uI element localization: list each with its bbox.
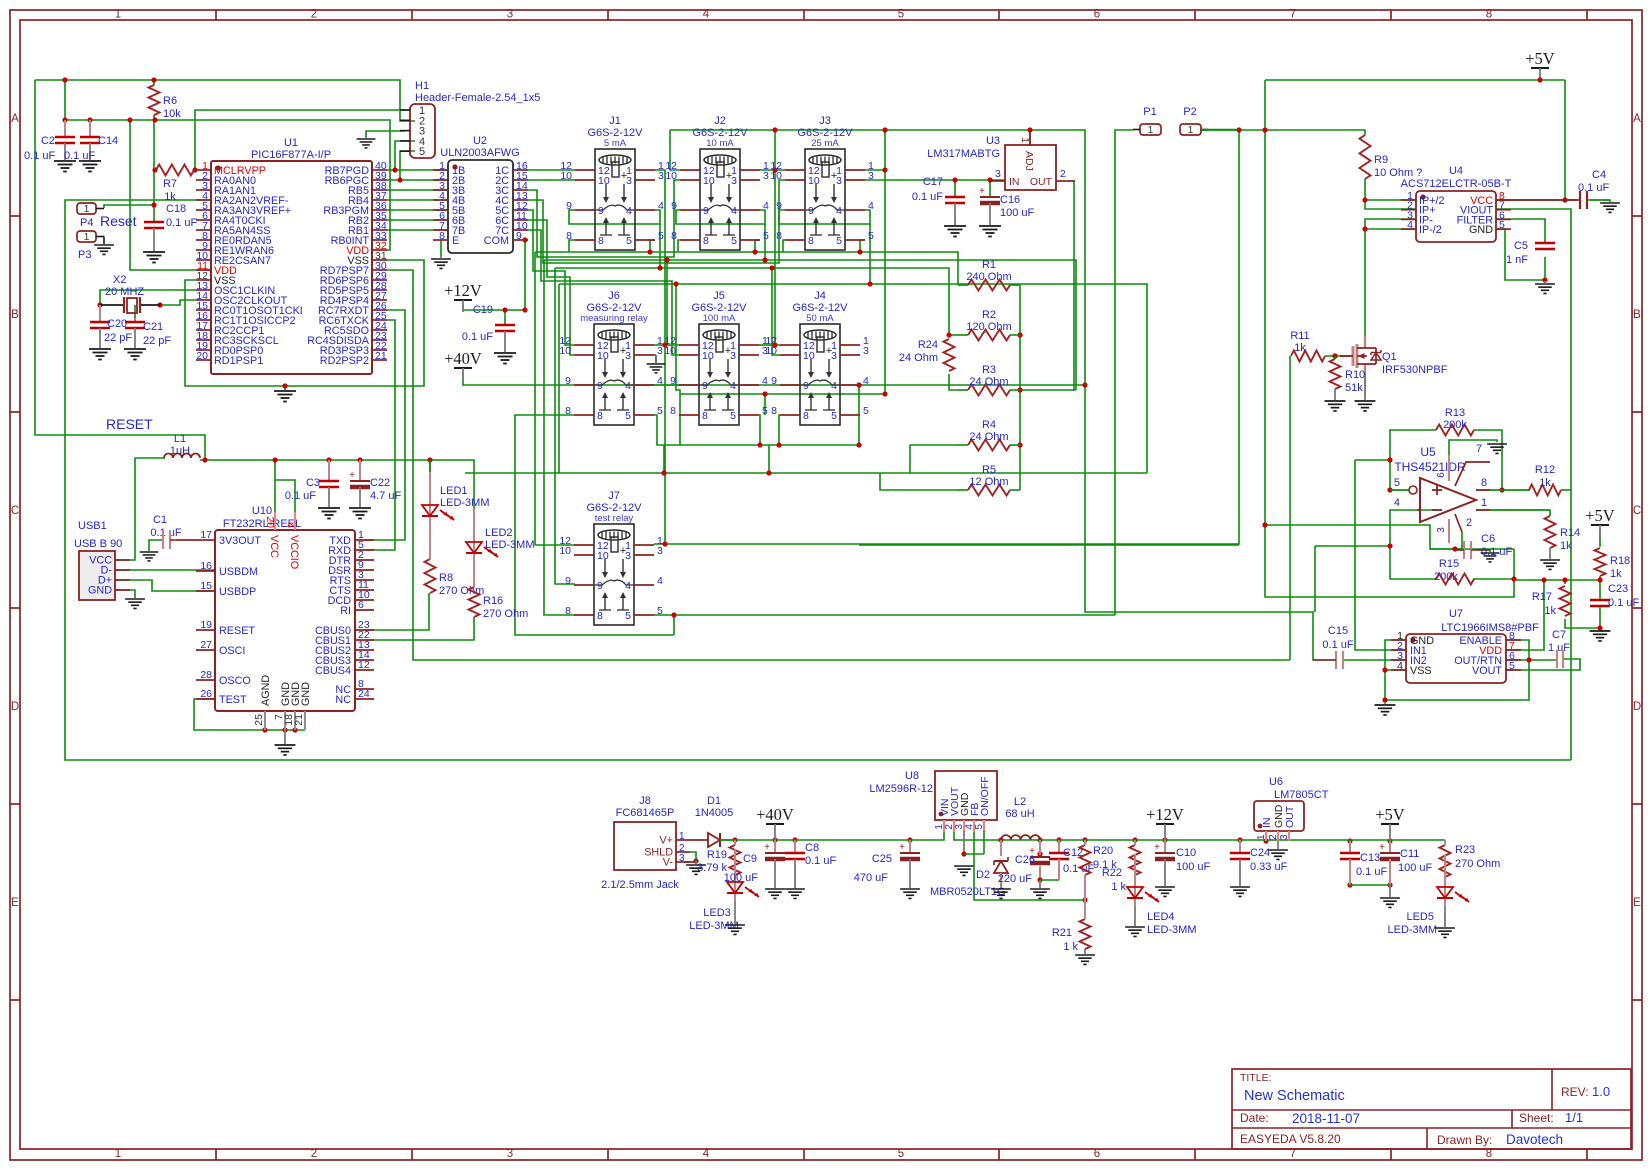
svg-text:4: 4 (1394, 497, 1400, 509)
svg-text:ACS712ELCTR-05B-T: ACS712ELCTR-05B-T (1401, 178, 1512, 190)
wire U3 ADJ riser (1029, 130, 1031, 145)
svg-text:J2: J2 (714, 115, 726, 127)
wire bus left verticals (535, 252, 575, 545)
capacitor C25 (909, 840, 911, 853)
svg-text:C: C (1633, 505, 1641, 517)
wire J6 contact to J7 column (515, 415, 674, 635)
wire U7 VOUT to C7 right (1506, 659, 1580, 670)
svg-text:Reset: Reset (100, 213, 137, 229)
svg-text:GND: GND (88, 585, 112, 597)
capacitor C9 (774, 840, 776, 853)
svg-text:D1: D1 (707, 795, 721, 807)
ground U8 GND pin (963, 831, 965, 853)
resistor R10 (1330, 359, 1341, 389)
wire U1 pin26 to U10 TXD (365, 310, 405, 540)
svg-text:10: 10 (664, 345, 676, 357)
svg-text:10: 10 (559, 545, 571, 557)
wire U1 pin36 to U2 5B (387, 209, 448, 211)
capacitor C19 (495, 324, 515, 326)
svg-text:5: 5 (626, 235, 632, 247)
svg-text:5: 5 (731, 235, 737, 247)
wire X2 crystal right (160, 300, 196, 305)
svg-text:GND: GND (1469, 224, 1493, 236)
svg-text:E: E (1633, 897, 1641, 909)
wire C26 C12 bottom (1037, 877, 1042, 882)
wire U2 output 6C to J3 coil (528, 220, 574, 355)
svg-text:5: 5 (974, 824, 985, 830)
wire H1 pin3 ground stub (366, 131, 405, 138)
svg-text:3: 3 (625, 350, 631, 362)
wire J6 contact link (654, 415, 680, 445)
wire U5 pin5 feed (1355, 459, 1390, 461)
wire C16 stem (989, 180, 991, 197)
svg-text:8: 8 (771, 405, 777, 417)
svg-text:USBDP: USBDP (219, 586, 256, 598)
title block (1232, 1069, 1631, 1149)
wire R2 left link (949, 334, 958, 336)
svg-text:4: 4 (831, 380, 837, 392)
LED LED4 (1134, 854, 1136, 906)
wire bus line D (559, 284, 1147, 473)
svg-text:8: 8 (1486, 9, 1492, 21)
svg-text:USB B 90: USB B 90 (74, 538, 122, 550)
svg-text:8: 8 (703, 235, 709, 247)
ground H1 pin3 (357, 139, 376, 148)
svg-text:C22: C22 (370, 477, 390, 489)
svg-text:+: + (1379, 842, 1385, 853)
svg-text:68 uH: 68 uH (1005, 808, 1034, 820)
svg-text:4: 4 (836, 205, 842, 217)
svg-text:V-: V- (663, 857, 674, 869)
svg-text:R18: R18 (1610, 555, 1630, 567)
svg-text:+5V: +5V (1525, 49, 1555, 68)
svg-text:P3: P3 (78, 249, 91, 261)
svg-text:C15: C15 (1328, 625, 1348, 637)
wire +12V to U2 COM (463, 240, 528, 310)
resistor R9 (1360, 135, 1371, 179)
svg-text:VSS: VSS (1410, 665, 1432, 677)
svg-text:E: E (11, 897, 19, 909)
capacitor C11 (1389, 841, 1391, 853)
svg-text:R12: R12 (1535, 464, 1555, 476)
wire U3 OUT loop (1074, 181, 1075, 390)
wire C6 gnd side (1477, 550, 1490, 552)
wire U4 GND loop (1496, 229, 1545, 280)
resistor R15 (1436, 574, 1474, 585)
wire R11 drop (1289, 356, 1291, 660)
wire y580 tie line (1514, 579, 1600, 581)
ground LED3 (725, 925, 745, 934)
svg-text:2: 2 (1268, 834, 1279, 840)
svg-text:5: 5 (898, 1148, 904, 1160)
resistor R8 (425, 559, 436, 593)
svg-text:C24: C24 (1250, 847, 1270, 859)
svg-text:10: 10 (808, 175, 820, 187)
svg-text:1 nF: 1 nF (1506, 254, 1528, 266)
svg-text:16: 16 (200, 560, 212, 572)
capacitor C22 (359, 460, 361, 481)
relay J4 (765, 290, 869, 425)
resistor R16 (469, 587, 480, 617)
relay J7 (559, 490, 663, 625)
svg-text:0.1 uF: 0.1 uF (64, 150, 95, 162)
svg-text:3: 3 (658, 170, 664, 182)
svg-text:R17: R17 (1532, 591, 1552, 603)
svg-text:J7: J7 (608, 490, 620, 502)
resistor R18 (1595, 548, 1606, 576)
svg-text:B: B (1633, 309, 1641, 321)
svg-text:27: 27 (200, 639, 212, 651)
svg-text:5: 5 (1394, 477, 1400, 489)
svg-text:4: 4 (657, 575, 663, 587)
svg-text:9: 9 (808, 205, 814, 217)
svg-text:0.1 uF: 0.1 uF (24, 150, 55, 162)
svg-text:Header-Female-2.54_1x5: Header-Female-2.54_1x5 (415, 92, 540, 104)
relay J5 (664, 290, 768, 425)
svg-text:C3: C3 (306, 477, 320, 489)
svg-text:FC681465P: FC681465P (616, 807, 675, 819)
svg-text:270 Ohm: 270 Ohm (483, 608, 528, 620)
wire U2 output 4C to J2 coil (528, 180, 785, 263)
ground J8 (686, 865, 706, 874)
wire R17 top (1564, 580, 1566, 584)
relay J1 (560, 115, 664, 250)
svg-text:LED-3MM: LED-3MM (485, 539, 535, 551)
svg-text:12: 12 (358, 659, 370, 671)
svg-text:8: 8 (598, 235, 604, 247)
wire LED1 top (429, 460, 431, 478)
wire USB D+ to USBDP (115, 580, 215, 591)
svg-text:C7: C7 (1552, 629, 1566, 641)
svg-text:LED2: LED2 (485, 527, 513, 539)
svg-text:C14: C14 (98, 135, 118, 147)
relay J6 (559, 290, 663, 425)
svg-text:L2: L2 (1014, 796, 1026, 808)
svg-text:+12V: +12V (1146, 805, 1184, 824)
svg-text:1 uF: 1 uF (1548, 642, 1570, 654)
svg-text:+40V: +40V (756, 805, 794, 824)
wire bus line C (555, 268, 949, 336)
svg-text:0.33 uF: 0.33 uF (1250, 861, 1288, 873)
svg-text:LM2596R-12: LM2596R-12 (869, 783, 933, 795)
svg-text:21: 21 (293, 714, 305, 726)
svg-text:+: + (979, 186, 985, 197)
svg-text:10 mA: 10 mA (706, 138, 734, 149)
svg-text:TITLE:: TITLE: (1240, 1072, 1272, 1084)
svg-text:4: 4 (731, 205, 737, 217)
svg-text:+5V: +5V (1585, 506, 1615, 525)
wire J3 contact loop (783, 240, 785, 252)
svg-text:9: 9 (771, 375, 777, 387)
wire C1 right (176, 539, 196, 541)
wire U7 VSS stub (1385, 669, 1406, 671)
wire VCC sub rail (65, 80, 390, 250)
svg-text:+40V: +40V (444, 349, 482, 368)
svg-text:LED3: LED3 (703, 907, 731, 919)
svg-text:51k: 51k (1345, 382, 1363, 394)
svg-text:V+: V+ (659, 835, 673, 847)
svg-text:19: 19 (200, 619, 212, 631)
wire R18 column (1599, 530, 1601, 547)
svg-text:0.1 uF: 0.1 uF (1578, 182, 1609, 194)
svg-text:20 MHZ: 20 MHZ (105, 286, 144, 298)
svg-text:10: 10 (765, 345, 777, 357)
wire U5 gnd stub (1449, 440, 1497, 455)
svg-text:1 k: 1 k (1111, 881, 1126, 893)
svg-text:L1: L1 (174, 433, 186, 445)
wire VOUT switch node (954, 831, 1001, 840)
svg-text:0.1 uF: 0.1 uF (1608, 597, 1639, 609)
svg-text:+12V: +12V (444, 281, 482, 300)
svg-text:USBDM: USBDM (219, 566, 258, 578)
svg-text:0.1 uF: 0.1 uF (166, 217, 197, 229)
capacitor C13 (1349, 841, 1351, 853)
svg-text:J5: J5 (713, 290, 725, 302)
svg-text:PIC16F877A-I/P: PIC16F877A-I/P (251, 149, 331, 161)
capacitor C2 (64, 120, 66, 137)
svg-text:9: 9 (598, 205, 604, 217)
wire U10 TEST loop (194, 699, 305, 730)
svg-text:NC: NC (335, 694, 351, 706)
capacitor C18 (144, 221, 164, 223)
resistor R21 (1080, 919, 1091, 949)
resistor R5 (968, 485, 1010, 496)
svg-text:Sheet:: Sheet: (1519, 1111, 1554, 1125)
svg-text:VCCIO: VCCIO (288, 535, 300, 569)
wire U1 pin40 to U2 1B (387, 169, 448, 171)
svg-text:100 uF: 100 uF (1176, 861, 1211, 873)
svg-text:7: 7 (1476, 443, 1482, 455)
svg-text:C11: C11 (1400, 848, 1419, 860)
svg-text:LM7805CT: LM7805CT (1274, 789, 1329, 801)
capacitor C3 (328, 460, 330, 481)
svg-text:R14: R14 (1560, 527, 1580, 539)
svg-text:10: 10 (770, 170, 782, 182)
resistor R4 (968, 440, 1010, 451)
capacitor C8 (794, 840, 796, 853)
wire P2 R9 feed line (1200, 130, 1365, 135)
svg-text:10: 10 (598, 175, 610, 187)
svg-text:C4: C4 (1592, 169, 1606, 181)
wire rail riser right (884, 130, 886, 394)
svg-text:R4: R4 (982, 419, 996, 431)
capacitor C12 (1058, 840, 1060, 853)
power flag +12V (454, 299, 472, 301)
svg-text:12 Ohm: 12 Ohm (969, 476, 1008, 488)
svg-text:3V3OUT: 3V3OUT (219, 535, 261, 547)
svg-text:100 uF: 100 uF (1000, 207, 1035, 219)
svg-text:25 mA: 25 mA (811, 138, 839, 149)
power flag +5V top (1531, 67, 1549, 69)
svg-text:1k: 1k (1544, 605, 1556, 617)
svg-text:LM317MABTG: LM317MABTG (927, 148, 1000, 160)
svg-text:8: 8 (702, 410, 708, 422)
wire H1 pin5 drop (400, 151, 415, 180)
wire J2 switch loop (676, 210, 765, 224)
resistor R11 (1291, 351, 1325, 362)
ground USB (125, 599, 145, 608)
svg-text:3: 3 (507, 1148, 513, 1160)
svg-text:C10: C10 (1176, 847, 1196, 859)
wire J1 contact loop (569, 240, 575, 252)
wire R4 left riser (910, 445, 958, 473)
svg-text:C9: C9 (743, 853, 757, 865)
svg-text:10: 10 (597, 350, 609, 362)
svg-text:9: 9 (670, 375, 676, 387)
svg-text:2: 2 (1060, 168, 1066, 180)
ground Q1 source (1364, 375, 1366, 400)
wire USB VCC riser to L1 (115, 458, 165, 560)
svg-text:8: 8 (565, 605, 571, 617)
resistor R3 (968, 385, 1010, 396)
wire J1 switch loop (569, 210, 660, 224)
svg-text:A: A (11, 113, 19, 125)
wire J3 coil minus to U3 IN (865, 179, 1005, 181)
svg-text:470 uF: 470 uF (854, 872, 889, 884)
svg-text:R19: R19 (707, 849, 727, 861)
wire U2 output 2C to J1 (528, 179, 575, 181)
svg-text:0.1 uF: 0.1 uF (1356, 866, 1387, 878)
svg-text:Q1: Q1 (1382, 351, 1397, 363)
svg-text:C23: C23 (1608, 583, 1628, 595)
wire U7 VSS gnd stem (1384, 700, 1386, 702)
svg-text:1: 1 (679, 831, 685, 842)
wire VCC top rail (35, 80, 415, 121)
svg-text:9: 9 (565, 575, 571, 587)
wire J2 contact loop (678, 240, 680, 252)
svg-text:C19: C19 (473, 304, 493, 316)
svg-text:TEST: TEST (219, 694, 247, 706)
wire U1 pin30 down-right (387, 270, 1290, 660)
wire +5V drop to VCC (1564, 80, 1566, 200)
svg-text:3: 3 (731, 175, 737, 187)
wire USB D- to USBDM (115, 569, 215, 571)
svg-text:5: 5 (1509, 660, 1515, 672)
svg-text:5: 5 (658, 230, 664, 242)
svg-text:5: 5 (1499, 219, 1505, 231)
wire U2 output 1C to J1 (528, 169, 575, 171)
wire relay row2 common jog (654, 384, 680, 386)
resistor R13 (1436, 425, 1474, 436)
svg-text:R22: R22 (1102, 867, 1122, 879)
power flag +40V bottom (766, 823, 784, 825)
capacitor C23 (1590, 599, 1610, 601)
svg-text:5: 5 (868, 230, 874, 242)
svg-text:9: 9 (703, 205, 709, 217)
svg-text:9: 9 (597, 380, 603, 392)
svg-text:3: 3 (1279, 834, 1290, 840)
svg-text:H1: H1 (415, 80, 429, 92)
svg-text:D: D (11, 701, 19, 713)
svg-text:X2: X2 (113, 274, 126, 286)
wire U10 VCCIO riser (275, 480, 295, 514)
svg-text:21: 21 (375, 350, 387, 362)
capacitor C26 (1039, 840, 1041, 855)
svg-text:5: 5 (836, 235, 842, 247)
svg-text:4: 4 (863, 375, 869, 387)
svg-text:R20: R20 (1093, 845, 1113, 857)
svg-text:+: + (764, 842, 770, 853)
svg-text:8: 8 (1481, 477, 1487, 489)
wire U2 E ground stub (440, 240, 442, 256)
svg-text:10: 10 (665, 170, 677, 182)
svg-text:3: 3 (863, 345, 869, 357)
wire U7 OUT/RTN to C7 (1506, 659, 1557, 661)
svg-text:R3: R3 (982, 364, 996, 376)
wire U4 VIOUT down to R12 (1496, 209, 1571, 760)
svg-text:1.0: 1.0 (1592, 1084, 1610, 1099)
svg-text:J4: J4 (814, 290, 826, 302)
wire R15 right loop (1473, 578, 1514, 580)
svg-text:R15: R15 (1439, 558, 1459, 570)
svg-text:100 mA: 100 mA (703, 313, 736, 324)
svg-text:CBUS4: CBUS4 (315, 665, 351, 677)
LED LED5 (1444, 854, 1446, 906)
wire coil supply rail (670, 130, 1336, 660)
svg-text:R1: R1 (982, 259, 996, 271)
svg-text:AGND: AGND (260, 675, 272, 706)
svg-text:J6: J6 (608, 290, 620, 302)
ground U2 E (440, 256, 442, 258)
svg-text:LED-3MM: LED-3MM (440, 497, 490, 509)
svg-text:17: 17 (200, 529, 212, 541)
svg-text:50 mA: 50 mA (806, 313, 834, 324)
svg-text:5: 5 (730, 410, 736, 422)
svg-text:C: C (11, 505, 19, 517)
wire U5 input network (1265, 525, 1514, 549)
svg-text:A: A (1633, 113, 1641, 125)
svg-text:6: 6 (1094, 9, 1100, 21)
wire R24 bottom link (949, 374, 958, 390)
wire R13 feedback top (1390, 430, 1436, 490)
svg-text:LED1: LED1 (440, 485, 468, 497)
svg-text:8: 8 (776, 230, 782, 242)
svg-text:200k: 200k (1434, 571, 1458, 583)
svg-text:28: 28 (200, 669, 212, 681)
svg-text:EASYEDA V5.8.20: EASYEDA V5.8.20 (1240, 1132, 1341, 1146)
wire U10 VCC riser (274, 460, 276, 514)
svg-text:0.1 uF: 0.1 uF (1322, 639, 1353, 651)
svg-text:U2: U2 (473, 135, 487, 147)
ground J6 coil return (654, 354, 656, 356)
svg-text:U5: U5 (1420, 445, 1436, 459)
power flag +5V bottom (1381, 823, 1399, 825)
svg-text:9: 9 (516, 230, 522, 242)
svg-text:RESET: RESET (106, 416, 153, 432)
wire C15 to U7 IN2 (1343, 659, 1406, 661)
svg-text:4: 4 (703, 1148, 710, 1160)
resistor R17 (1560, 586, 1571, 616)
svg-text:10: 10 (702, 350, 714, 362)
svg-text:15: 15 (200, 580, 212, 592)
svg-text:Davotech: Davotech (1506, 1132, 1563, 1147)
wire VDD pin11 drop (130, 120, 211, 270)
wire U4 IP- tie (1365, 219, 1416, 229)
wire J7 contact row (654, 614, 1115, 616)
svg-text:4: 4 (626, 205, 632, 217)
svg-text:GND: GND (300, 682, 312, 706)
svg-text:4: 4 (762, 375, 768, 387)
svg-text:R10: R10 (1345, 369, 1365, 381)
svg-text:LED4: LED4 (1147, 911, 1175, 923)
wire U8 FB loop (974, 832, 1085, 900)
wire U2 output 3C to J2 coil (528, 180, 680, 257)
wire RESET net (35, 80, 205, 460)
svg-text:1 k: 1 k (1063, 941, 1078, 953)
wire J5 J4 coil feeds (667, 260, 679, 345)
resistor R19 (730, 845, 741, 875)
svg-text:LED-3MM: LED-3MM (689, 920, 739, 932)
